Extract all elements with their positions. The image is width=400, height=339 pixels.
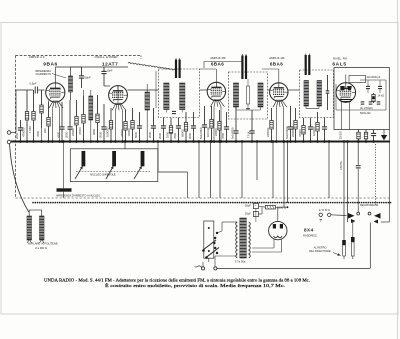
V5 pin wires (342, 102, 350, 130)
gang section 1 plates (82, 151, 86, 166)
svg-text:4700: 4700 (173, 132, 177, 139)
label 68000 t1 (181, 129, 185, 137)
label 220000 s4 (266, 127, 270, 137)
svg-text:RADDRIZZ.: RADDRIZZ. (303, 234, 318, 238)
svg-text:S 7a 00a: S 7a 00a (235, 260, 246, 264)
capacitor 2000 under T1 a (161, 118, 166, 143)
resistor T3 base 2 (316, 112, 319, 143)
gang section 3 arrow (134, 166, 142, 179)
wire B+ riser 1 (283, 140, 286, 207)
svg-text:6BA6: 6BA6 (270, 62, 283, 67)
label 5x1 2000 (199, 127, 203, 139)
V5 cathode bars (340, 100, 353, 102)
label DEL RICEVITORE (309, 249, 331, 253)
T1 tuning slugs (175, 58, 181, 78)
label 220 (43, 128, 47, 133)
resistor under T1 b (184, 112, 187, 143)
wire antenna terminal to grid line (11, 90, 33, 133)
terminal FONO 1 (319, 213, 322, 221)
svg-text:22000: 22000 (214, 128, 218, 136)
label 2000 ant (15, 132, 19, 139)
svg-text:RIVEL. FM: RIVEL. FM (333, 57, 347, 61)
label 2000 osc (148, 131, 152, 138)
inductor interstage coil (89, 90, 93, 143)
tuner enclosure dashed border left (15, 56, 17, 199)
resistor 470k grid leak (25, 90, 28, 143)
capacitor 2000 osc (151, 108, 156, 143)
capacitor detector row 3 (377, 102, 381, 104)
tube V4 label 6BA6 (270, 62, 283, 67)
antenna terminal node A1 (7, 131, 11, 135)
V6 filament (274, 236, 283, 238)
svg-text:68000: 68000 (181, 129, 185, 137)
capacitor T2 base 2 (249, 110, 254, 143)
svg-text:220: 220 (43, 128, 47, 133)
svg-text:AMPLIF. MF: AMPLIF. MF (269, 56, 285, 60)
wire detector box right drop (381, 130, 389, 223)
svg-text:DEL RICEVITORE: DEL RICEVITORE (309, 249, 331, 253)
svg-text:6AL5: 6AL5 (332, 62, 346, 68)
svg-text:1 MΩ: 1 MΩ (28, 126, 32, 133)
label 47000 t3 (298, 129, 302, 137)
wire B+ riser 2 (286, 140, 289, 203)
capacitor detector row 2 (369, 102, 373, 104)
wire FONO to switch (331, 214, 347, 217)
voltage selector blade 2 (205, 248, 219, 259)
V6 top wire (277, 207, 279, 221)
label BIFILARE IN POLITENE (28, 242, 58, 246)
svg-text:47000: 47000 (120, 129, 124, 137)
svg-text:47000: 47000 (298, 129, 302, 137)
capacitor detector 2 (378, 80, 382, 93)
terminal FONO 2 (328, 213, 331, 216)
label 20uF a (245, 203, 252, 207)
label 1M (28, 126, 32, 133)
T3 primary coil (304, 81, 309, 107)
label 22000 osc (127, 128, 131, 136)
resistor under T1 (169, 118, 172, 143)
resistor 100000 stage2 (109, 108, 112, 143)
svg-text:220000: 220000 (340, 131, 342, 139)
capacitor 2000 under T1 b (176, 118, 181, 143)
capacitor 2000 stage2 (101, 104, 106, 143)
svg-text:IMPEDENZA D'ARRESTO A NUCLE: IMPEDENZA D'ARRESTO A NUCLEO (56, 194, 100, 198)
label 10pF (107, 69, 113, 73)
resistor 1000 ohm filter (265, 205, 275, 209)
label AMPLIF. A.F. stage (29, 55, 45, 59)
resistor 22000 stage3 (218, 110, 221, 143)
capacitor screen bypass (67, 100, 72, 143)
svg-text:0,5pF: 0,5pF (30, 82, 37, 86)
resistor plate 47000 (82, 90, 85, 143)
svg-text:50pF: 50pF (85, 76, 91, 80)
inductor RF choke (69, 67, 73, 100)
capacitor 2000 under T1 c (191, 112, 196, 143)
svg-text:2000: 2000 (148, 131, 152, 138)
svg-text:2000: 2000 (15, 132, 19, 139)
power transformer primary winding (236, 222, 238, 258)
detector internal wires (336, 80, 386, 110)
switch contact 1 (357, 212, 360, 215)
svg-text:14 kΩ: 14 kΩ (378, 95, 385, 98)
svg-text:22000: 22000 (71, 128, 75, 136)
switch contact 2 (368, 212, 371, 215)
tube V1 label 9BA6 (43, 62, 58, 68)
T1 primary coil (164, 83, 169, 110)
mains connector box (204, 221, 214, 258)
wire V4 top stub (262, 69, 279, 83)
capacitor cathode bypass 4700 (59, 102, 64, 143)
wire drop x257 (256, 140, 259, 180)
wire bus to gang box (124, 140, 127, 149)
label 2x2700 pF (360, 107, 373, 110)
svg-text:470000: 470000 (22, 127, 26, 137)
label IMPEDENZA D'ARRESTO (35, 69, 66, 78)
resistor 220000 stage4 (294, 90, 297, 143)
svg-text:100000: 100000 (106, 127, 110, 137)
label AMPLIF. MF stage 1 (210, 56, 226, 60)
T3 secondary coil (317, 81, 322, 107)
capacitor grid coupling 12AT7 (101, 67, 128, 86)
capacitor 4700 stage3 (224, 112, 229, 143)
svg-text:220000: 220000 (291, 127, 295, 137)
wire drop x220 (219, 140, 222, 198)
capacitor T2 base 1 (233, 107, 238, 143)
svg-text:BIFILARE IN POLITENE: BIFILARE IN POLITENE (28, 242, 58, 246)
capacitor detector row 1 (361, 102, 365, 104)
svg-text:D'ARRESTO: D'ARRESTO (36, 72, 51, 76)
svg-text:10pF: 10pF (107, 69, 113, 73)
label 20uF b (245, 212, 252, 216)
label RIVEL. FM stage (333, 57, 347, 61)
capacitor 2000 antenna (18, 120, 23, 143)
label vertical under V5 (340, 131, 342, 139)
wire V2 plate to T1 (127, 89, 158, 91)
wire drop x210 (209, 140, 212, 198)
label 50pF (85, 76, 91, 80)
label 100 kpF b (221, 132, 225, 139)
capacitor 0,5 uF series (35, 87, 44, 94)
tube V2 label 12AT7 (102, 62, 118, 68)
resistor screen 22000 (75, 100, 78, 143)
dipole element left (27, 210, 32, 243)
chassis heavy dotted line (33, 202, 392, 204)
label 47000 plate (78, 127, 82, 135)
label 6800 (92, 128, 96, 135)
label 14 kohm (378, 95, 385, 98)
svg-text:20μF: 20μF (245, 212, 252, 216)
label 47000 osc (120, 129, 124, 137)
power transformer core (240, 218, 247, 258)
T2 secondary coil (258, 83, 263, 107)
page right edge line (397, 0, 399, 339)
switch jaw left (348, 213, 356, 223)
label 2000 t1c (188, 132, 192, 139)
svg-text:100 kpF: 100 kpF (206, 127, 210, 137)
tube V5 label 6AL5 (332, 62, 346, 68)
capacitor electrolytic 20uF b (253, 211, 258, 216)
svg-text:2000: 2000 (158, 132, 162, 139)
svg-text:9BA6: 9BA6 (43, 62, 58, 68)
capacitor 5000 (137, 112, 142, 143)
tube V6 8X4 rectifier (269, 221, 287, 239)
capacitor 2x1-2000 stage3 (202, 106, 207, 143)
gang section 1 arrow (75, 166, 83, 179)
IF transformer T2 shield dashed box (229, 72, 268, 119)
power transformer secondary winding (249, 222, 251, 258)
label 5000 (134, 131, 138, 138)
capacitor detector 1 (366, 80, 370, 93)
label 22000 stage3 (214, 128, 218, 136)
label 100 kpF (206, 127, 210, 137)
capacitor 2x1-2000u stage4 (288, 106, 293, 143)
svg-text:5x1/4700: 5x1/4700 (231, 127, 235, 139)
tube V4 6BA6 IF amplifier 2 (270, 83, 288, 143)
V6 filament wires to secondary (252, 239, 282, 253)
label RADDRIZZ (303, 234, 318, 238)
tube V3 label 6BA6 (211, 62, 224, 67)
svg-text:(2x 2700pF): (2x 2700pF) (360, 107, 373, 110)
tube V1 9BA6 RF amplifier (46, 83, 65, 143)
gang section 2 plates (112, 151, 116, 166)
label 22000 screen (71, 128, 75, 136)
svg-text:5000: 5000 (134, 131, 138, 138)
wire V3 top stub (200, 69, 217, 82)
oscillator shield scalloped edge (128, 56, 176, 109)
T3 tuning slugs (305, 54, 311, 76)
T2 internal capacitor bars (236, 79, 261, 110)
label 100000 t3 (312, 126, 316, 136)
label USCITA vertical (340, 161, 343, 170)
wire V1 plate to top rail (55, 67, 128, 83)
svg-text:5x1/2000: 5x1/2000 (199, 127, 203, 139)
T2 primary coil (234, 83, 239, 107)
caption line 2 (105, 283, 285, 289)
V6 anode plates (273, 224, 283, 229)
svg-text:4700: 4700 (57, 131, 61, 138)
label 220000 b (291, 127, 295, 137)
inductor IMPEDENZA D'ARRESTO A NUCLEO (57, 140, 72, 198)
inductor oscillator coil (145, 84, 150, 143)
svg-text:12AT7: 12AT7 (102, 62, 118, 68)
label 470000 (22, 127, 26, 137)
tube V5 6AL5 detector (336, 75, 356, 103)
plug RADIO (342, 240, 346, 259)
wire primary top to selector (218, 222, 237, 233)
mains cord squiggle (195, 258, 209, 267)
wire T2 to V4 grid (268, 89, 271, 91)
resistor detector load 2 (364, 130, 367, 143)
label 1000 ohm (277, 206, 286, 210)
resistor cathode 220 (47, 100, 50, 143)
svg-text:220000: 220000 (266, 127, 270, 137)
gang mechanical link dashed (76, 171, 150, 173)
capacitor 50pF (71, 67, 85, 88)
wire V4 plate to T3 (288, 89, 300, 91)
label FONO (319, 208, 331, 212)
resistor 47000 osc (124, 110, 127, 143)
svg-text:NUCLEO GIREVOLE: NUCLEO GIREVOLE (90, 172, 116, 176)
label 100000 (106, 127, 110, 137)
T2 tuning slugs (241, 54, 247, 79)
label 4700 v1 cathode (57, 131, 61, 138)
svg-text:8X4: 8X4 (304, 228, 314, 233)
svg-text:2000: 2000 (99, 131, 103, 138)
mains terminal 1 (201, 267, 204, 270)
resistor 22000 osc (131, 108, 134, 143)
label AL RETRO (314, 245, 327, 249)
svg-text:20μF: 20μF (245, 203, 252, 207)
svg-text:4700: 4700 (221, 132, 225, 139)
resistor 14 kohm (372, 93, 375, 103)
svg-text:100000: 100000 (312, 126, 316, 136)
gang tuning capacitor box (70, 149, 158, 182)
svg-text:F O N O: F O N O (319, 208, 331, 212)
svg-text:Z a 300 Ω: Z a 300 Ω (35, 246, 47, 250)
label Z = 300 ohm (35, 246, 47, 250)
switch jaw right (374, 213, 381, 224)
wire drop x242 (241, 140, 244, 198)
label NUCLEO GIREVOLE (90, 172, 116, 176)
caption line 1 (44, 277, 310, 283)
discriminator coil sub-box (349, 76, 366, 83)
gang section 2 arrow (106, 166, 113, 179)
label 5x1 2000u (285, 125, 289, 139)
tube V2 12AT7 oscillator mixer (109, 86, 128, 143)
svg-text:AL RETRO: AL RETRO (314, 245, 327, 249)
svg-text:2000: 2000 (65, 131, 69, 138)
wire B+ feed with capacitor (356, 140, 361, 212)
tuner enclosure dashed border bottom (16, 197, 391, 199)
label 4700 t1b (173, 132, 177, 139)
wire screen supply top (204, 62, 242, 69)
svg-text:T.F.A.: T.F.A. (247, 131, 251, 138)
T3 internal capacitor (306, 75, 329, 110)
wire osc to gang (157, 140, 188, 198)
wire twin lead curve to dipole (10, 144, 29, 212)
dipole element right (29, 210, 44, 243)
wire primary bottom (215, 256, 237, 267)
svg-text:6800: 6800 (92, 128, 96, 135)
IF transformer T3 shield dashed box (300, 70, 334, 118)
T1 internal capacitor (166, 110, 182, 114)
ground chassis arrow (381, 130, 387, 141)
capacitor T3 base 2 (322, 118, 327, 143)
label 4700 s1 (36, 130, 40, 137)
main bus wire (11, 141, 390, 143)
resistor 4700 stage1 (40, 90, 43, 143)
svg-text:500Ω 220: 500Ω 220 (360, 112, 371, 115)
svg-text:2x1/2000 pF: 2x1/2000 pF (367, 76, 381, 79)
svg-text:5x1/2000μ: 5x1/2000μ (285, 125, 289, 139)
label IMPEDENZA D'ARRESTO A NUCLEO (56, 194, 100, 198)
wire audio output pair (343, 140, 349, 240)
plug FONO out (351, 237, 355, 259)
arrow to plugs (333, 253, 341, 256)
svg-text:AMPLIF. MF: AMPLIF. MF (210, 56, 226, 60)
gang section 3 plates (141, 151, 145, 166)
tuner enclosure dashed border top (16, 55, 142, 57)
tube V3 6BA6 IF amplifier 1 (207, 82, 225, 143)
svg-text:6BA6: 6BA6 (211, 62, 224, 67)
wire drop x329 (328, 140, 331, 198)
capacitor electrolytic 20uF a (253, 203, 258, 222)
label 22000 t1 (166, 131, 170, 138)
label 2000 stage2 (99, 131, 103, 138)
wire bottom run to switch (217, 223, 370, 269)
resistor detector load 1 (357, 130, 360, 143)
label 2000 t1a (158, 132, 162, 139)
resistor 1 Mohm (32, 90, 35, 143)
svg-text:22000: 22000 (127, 128, 131, 136)
wire antenna top terminal to cap (11, 132, 21, 134)
antenna terminal node A2 (7, 140, 11, 144)
resistor 47000 T3 base (302, 118, 305, 143)
tube V6 label 8X4 (304, 228, 314, 233)
capacitor T3 base (308, 118, 313, 143)
svg-text:47000: 47000 (78, 127, 82, 135)
T1 secondary coil (180, 83, 185, 110)
label 5x1 4700 (231, 127, 235, 139)
wire drop x273 (272, 140, 275, 198)
label TFA (247, 131, 251, 138)
svg-text:1000 Ω: 1000 Ω (277, 206, 286, 210)
label 500 ohm det (360, 112, 371, 115)
svg-text:OSCILL. E MIXER: OSCILL. E MIXER (94, 55, 117, 59)
voltage selector contacts (213, 232, 218, 254)
voltage selector blade 1 (202, 240, 216, 252)
svg-text:2000: 2000 (188, 132, 192, 139)
resistor 6800 (96, 95, 99, 143)
capacitor detector out (371, 130, 376, 143)
label 2000 screen (65, 131, 69, 138)
svg-text:DEVIATORE FM: DEVIATORE FM (360, 203, 378, 207)
label AMPLIF. MF stage 2 (269, 56, 285, 60)
wire switch to plug 2 (352, 221, 354, 237)
label 0,5 uF (30, 82, 37, 86)
svg-text:1000: 1000 (166, 131, 170, 138)
label 2x1/2000 pF (367, 76, 381, 79)
label OSCILL. E MIXER stage (94, 55, 117, 59)
svg-text:USCITA: USCITA (340, 161, 343, 170)
wire T1 to V3 grid (200, 89, 208, 91)
resistor 100k stage3 (210, 106, 213, 143)
label transformer taps (235, 260, 246, 264)
bus left terminal junction (10, 141, 12, 144)
svg-text:AMPLIF. A.F.: AMPLIF. A.F. (29, 55, 45, 59)
svg-text:4700: 4700 (36, 130, 40, 137)
dotted link detector to switch (375, 144, 377, 206)
resistor 100000 stage4 (270, 108, 273, 143)
wire grid line V2 (16, 86, 110, 133)
label DEVIATORE FM (360, 203, 378, 207)
IF transformer T1 shield dashed box (159, 69, 200, 118)
FM detector solid box (334, 68, 389, 130)
V5 diode plates (340, 86, 352, 90)
wire drop x199 (198, 140, 201, 198)
mains terminal 2 (214, 267, 217, 270)
wire filter connections (258, 206, 288, 214)
